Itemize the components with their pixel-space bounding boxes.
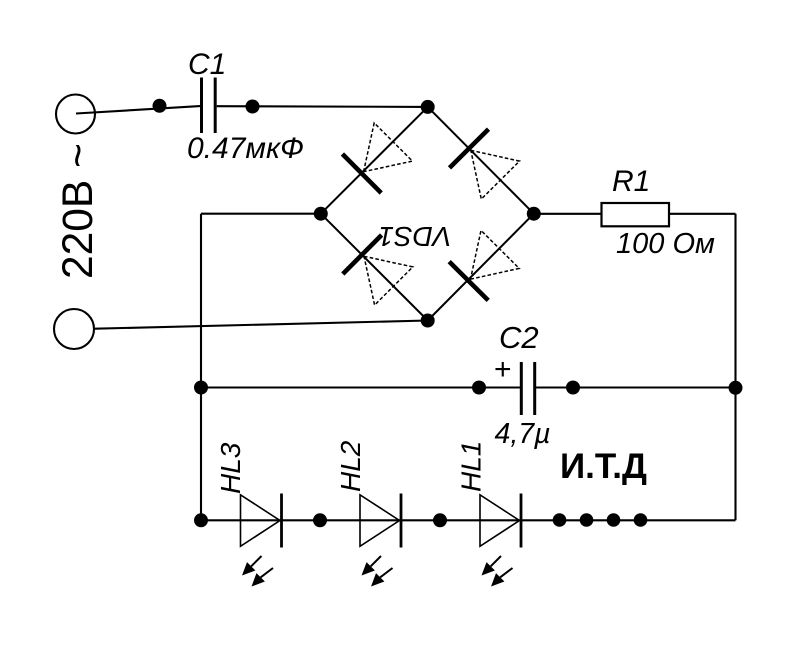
node C2 right	[566, 381, 580, 395]
svg-text:100 Ом: 100 Ом	[616, 228, 715, 260]
svg-text:HL3: HL3	[215, 442, 246, 494]
wire bridge side bottom-left	[321, 214, 428, 321]
wire right rail vertical	[734, 214, 736, 521]
node C1 left	[153, 99, 167, 113]
svg-text:R1: R1	[612, 165, 650, 198]
capacitor C1	[202, 78, 216, 134]
svg-text:C2: C2	[499, 320, 539, 355]
svg-text:HL2: HL2	[335, 440, 366, 492]
svg-text:HL1: HL1	[456, 441, 487, 492]
node mid rail left	[194, 381, 208, 395]
node C2 left	[472, 381, 486, 395]
terminal X1 (top input)	[56, 95, 95, 134]
wire bridge right node to R1	[534, 213, 602, 215]
svg-text:0.47мкФ: 0.47мкФ	[187, 132, 304, 165]
svg-text:C1: C1	[188, 48, 226, 81]
svg-text:+: +	[494, 353, 512, 386]
node ellipsis dot 1	[553, 513, 567, 527]
svg-text:И.Т.Д: И.Т.Д	[560, 447, 647, 486]
wire left rail vertical	[200, 214, 202, 521]
wire mid rail left of C2	[201, 386, 521, 388]
capacitor C2	[521, 362, 534, 415]
wire bridge side bottom-right	[428, 214, 534, 321]
node between HL2 and HL1	[433, 513, 447, 527]
svg-text:4,7µ: 4,7µ	[495, 418, 551, 450]
node bridge left	[314, 207, 328, 221]
wire bridge side top-left	[321, 107, 428, 214]
node LED row left	[194, 513, 208, 527]
LED HL2	[360, 494, 401, 587]
wire bridge side top-right	[428, 107, 534, 214]
node ellipsis dot 2	[580, 513, 594, 527]
node mid rail right	[729, 381, 743, 395]
diode VD2 (upper-right of bridge VDS1)	[450, 129, 520, 199]
node bridge right	[527, 207, 541, 221]
LED HL3	[241, 494, 282, 587]
terminal X2 (bottom input)	[54, 309, 94, 349]
wire LED row	[201, 519, 736, 521]
wire mid rail right of C2	[535, 386, 736, 388]
svg-text:220В ~: 220В ~	[55, 143, 102, 279]
diode VD4 (lower-right of bridge VDS1)	[449, 230, 519, 300]
node bridge top	[421, 100, 435, 114]
LED HL1	[480, 494, 521, 587]
diode VD3 (lower-left of bridge VDS1)	[343, 235, 413, 305]
svg-text:VDS1: VDS1	[378, 221, 451, 252]
node ellipsis dot 3	[607, 513, 621, 527]
wire R1 to right rail	[669, 213, 736, 215]
diode VD1 (upper-left of bridge VDS1)	[342, 123, 412, 193]
node bridge bottom	[421, 314, 435, 328]
node ellipsis dot 4	[634, 513, 648, 527]
resistor R1	[602, 203, 670, 226]
wire bottom terminal to bridge bottom node	[95, 321, 428, 329]
wire bridge left node to left rail	[201, 213, 321, 215]
node C1 right	[246, 100, 260, 114]
wire top terminal to C1	[76, 106, 200, 113]
node between HL3 and HL2	[313, 513, 327, 527]
wire C1 to bridge top node	[217, 105, 428, 108]
